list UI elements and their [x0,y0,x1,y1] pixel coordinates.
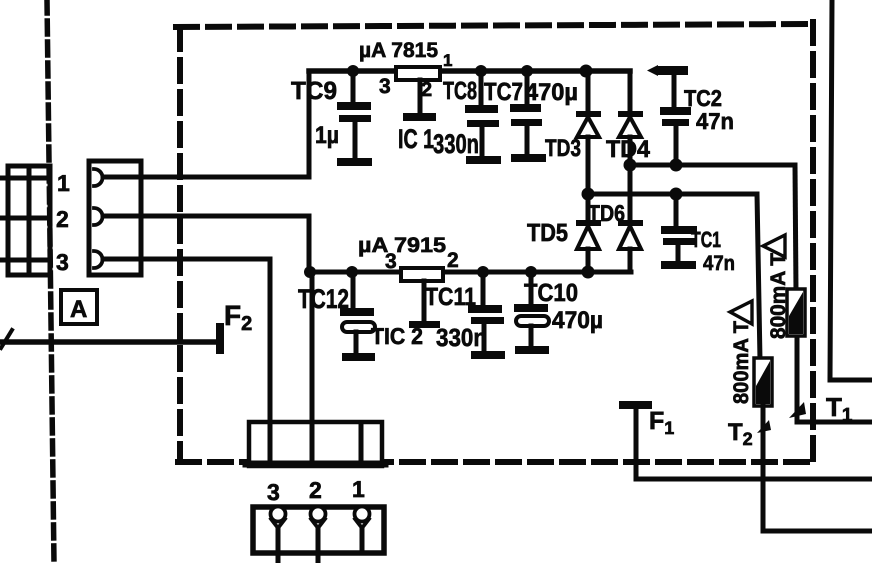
diode D5 [576,194,601,279]
plug arrow T1 [789,402,806,418]
label 800mA T (Si1) [763,235,790,339]
svg-text:TC9: TC9 [291,77,337,105]
wire +raw rail (top) [309,68,630,74]
svg-text:F1: F1 [649,407,674,438]
node row1 (AC a) [624,159,796,172]
dashed enclosure box [176,22,816,462]
wire fuse Si1 to T1 corner [795,337,800,422]
svg-text:A: A [70,296,87,323]
svg-text:µA 7815: µA 7815 [359,39,438,62]
wire right bypass (top to right edge) [830,0,832,380]
svg-text:3: 3 [56,249,69,275]
svg-text:1µ: 1µ [315,122,339,149]
svg-text:µA 7915: µA 7915 [358,234,446,257]
bottom socket connector [253,507,384,563]
capacitor C2 47n [647,65,691,165]
wire pin3 row [103,257,270,262]
wire -raw rail (bottom) [309,270,401,275]
wire 0V drop to bottom connector [310,272,315,464]
svg-text:TC12: TC12 [298,284,349,314]
diode D6 [618,220,643,272]
node row2 (AC b) [582,188,758,201]
capacitor C11 330n [468,266,505,359]
capacitor C10 470µ [514,266,549,354]
svg-text:3: 3 [385,250,397,273]
svg-text:1: 1 [443,51,452,70]
svg-text:TIC 2: TIC 2 [371,323,423,349]
fuse Si2 800mA T [754,358,772,406]
label 800mA T (Si2) [730,301,753,404]
connector X2 (female, pins 1-3) [89,161,141,275]
svg-text:470µ: 470µ [552,307,603,334]
svg-text:2: 2 [309,477,322,503]
svg-text:2: 2 [447,249,459,272]
svg-text:TC11: TC11 [425,283,476,311]
svg-text:2: 2 [421,79,432,101]
capacitor C1 47n [661,194,697,269]
svg-text:1: 1 [352,476,365,502]
capacitor C9 1µ [337,65,372,166]
capacitor C8 330n [465,65,501,164]
svg-text:330n: 330n [433,129,479,159]
wire F1 to right edge [636,477,872,482]
svg-text:TC1: TC1 [691,227,721,252]
regulator IC2 µA7915 [401,268,443,328]
svg-text:TC8: TC8 [443,77,477,105]
wire T2 to right edge [763,529,872,534]
regulator IC1 µA7815 [396,67,440,121]
connector X1 (male, pins 1-3) [0,166,50,275]
dashed chassis boundary line (far left) [47,0,54,563]
wire riser pin2 down to -rail [307,216,312,272]
wire riser pin1 to +rail [307,71,312,177]
diode D4 [618,71,643,165]
wire pin2 row [103,214,309,219]
wire pin3 drop to bottom connector [268,259,273,464]
svg-text:TD3: TD3 [545,135,581,162]
svg-text:TC7: TC7 [484,78,523,106]
capacitor C7 470µ [510,65,546,162]
wire row2 drop to fuse Si2 [757,194,760,360]
svg-text:800mA T: 800mA T [730,321,753,404]
svg-text:1: 1 [57,170,70,196]
board marker A [61,290,97,324]
wire D4/D6 column crossing [628,165,633,221]
fuse Si1 800mA T [787,289,805,336]
svg-text:47n: 47n [696,108,734,134]
bottom connector housing (on dashed border) [246,422,385,466]
wire T1 to right edge [797,420,872,425]
svg-text:800mA T: 800mA T [767,253,790,339]
svg-text:F2: F2 [224,300,252,335]
svg-text:470µ: 470µ [525,79,578,106]
fuse terminal F1 [619,401,652,479]
svg-text:47n: 47n [703,252,735,275]
svg-text:TD5: TD5 [527,219,568,247]
svg-text:3: 3 [267,479,280,505]
diode D3 [576,65,601,195]
wire fuse Si2 to T2 and bottom right [761,403,766,531]
svg-text:T2: T2 [728,419,753,449]
plug arrow T2 [757,420,771,433]
wire pin1 row to riser [103,175,309,180]
svg-text:2: 2 [56,206,69,232]
fuse terminal F2 [0,323,224,354]
wire row1 drop to fuse Si1 [795,165,796,292]
capacitor C12 [340,266,375,361]
svg-text:3: 3 [379,75,391,98]
svg-text:330n: 330n [436,324,487,352]
svg-text:IC 1: IC 1 [398,124,434,154]
svg-text:TC10: TC10 [524,279,578,307]
